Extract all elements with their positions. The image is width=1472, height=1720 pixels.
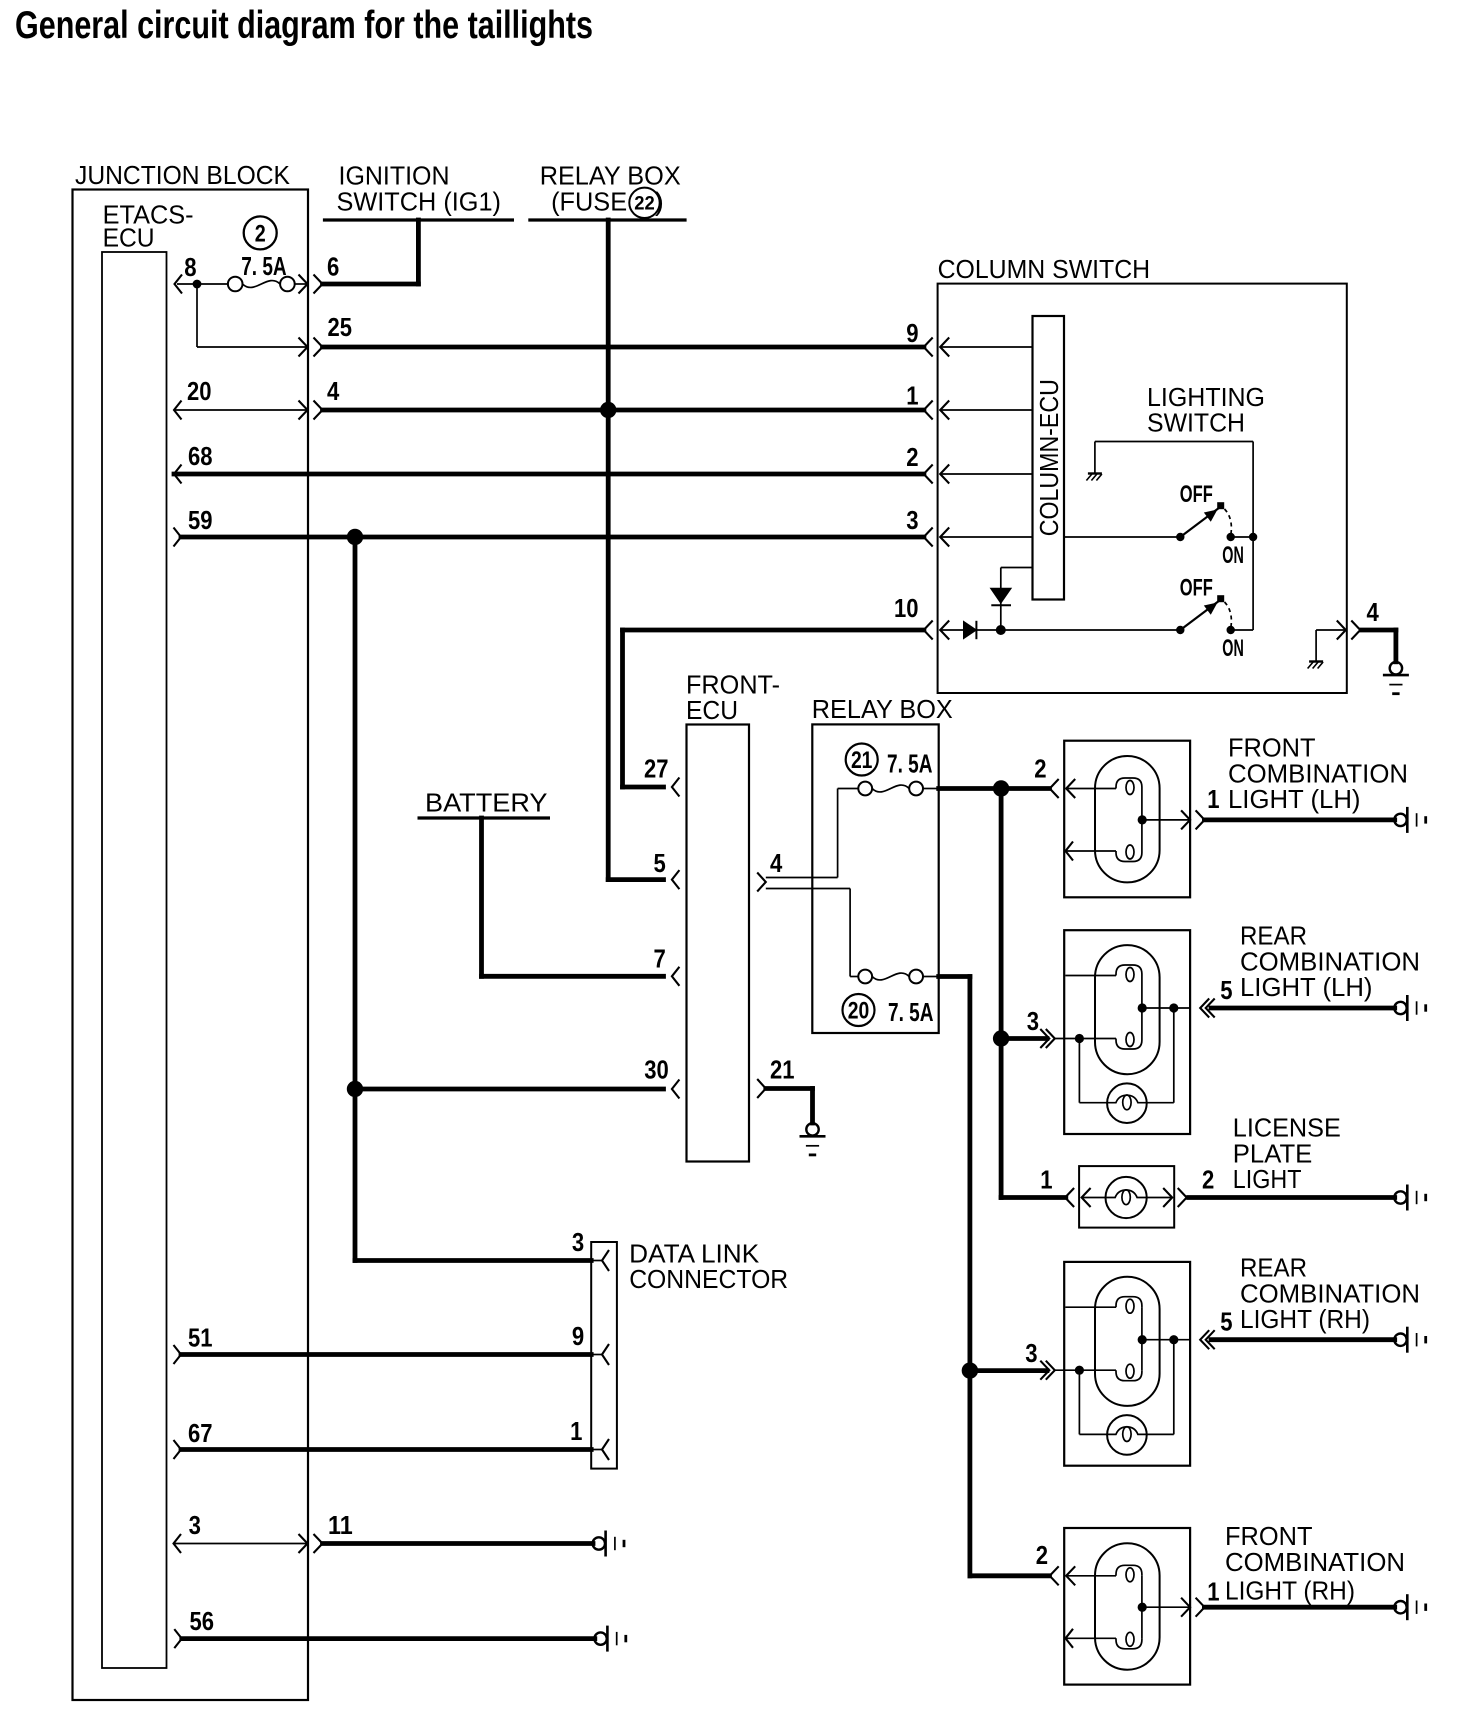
chassis ground at switch output: [1309, 660, 1323, 662]
wire pin 20 to junction block edge: [174, 409, 306, 411]
pin 21 arrow at front-ecu right edge: [757, 1079, 766, 1098]
svg-text:1: 1: [906, 381, 918, 411]
svg-text:5: 5: [1220, 975, 1232, 1005]
svg-text:22: 22: [634, 193, 655, 214]
svg-text:2: 2: [1034, 754, 1046, 784]
front combination light RH pin 1 connector: [1394, 1601, 1406, 1613]
front combination light RH box: [1064, 1528, 1190, 1685]
front combination light RH bulb outline: [1095, 1543, 1160, 1669]
rear combination light RH node tail bulb branch: [1169, 1335, 1178, 1344]
rear combination light RH node pin 5: [1138, 1335, 1147, 1344]
node upper switch contact: [1249, 533, 1257, 541]
rear combination light LH node pin 5: [1138, 1003, 1147, 1012]
svg-text:2: 2: [255, 221, 266, 248]
node at pin 8 wire: [193, 280, 202, 289]
svg-text:7. 5A: 7. 5A: [241, 251, 287, 281]
relay box (fuse 22) bus bar: [528, 218, 686, 221]
pin 11 connector: [593, 1537, 605, 1549]
svg-text:6: 6: [327, 252, 339, 282]
earth ground at column switch pin 4: [1390, 662, 1402, 674]
upper switch ON contact: [1227, 533, 1235, 541]
rear combination light LH box: [1064, 930, 1190, 1134]
pin 7 arrow at front-ecu: [672, 967, 680, 986]
svg-text:3: 3: [1027, 1006, 1039, 1036]
front combination light LH box: [1064, 741, 1190, 898]
svg-text:51: 51: [188, 1323, 213, 1353]
data link connector box: [591, 1242, 617, 1469]
wire fuse 20 output: [939, 974, 970, 979]
svg-text:30: 30: [644, 1055, 669, 1085]
ignition switch bus bar: [323, 218, 514, 221]
wire pin 21 to ground: [766, 1086, 813, 1091]
svg-text:ON: ON: [1222, 542, 1244, 569]
svg-text:21: 21: [770, 1055, 795, 1085]
front combination light RH pin 1 arrows: [1181, 1598, 1190, 1617]
lighting switch bus: [1252, 442, 1254, 631]
rear combination light LH pin 3 arrows: [1040, 1029, 1049, 1048]
front combination light LH bulb outline: [1095, 756, 1160, 882]
wire pin 10 from front-ecu pin 27: [623, 628, 924, 633]
svg-text:2: 2: [1036, 1540, 1048, 1570]
svg-text:CONNECTOR: CONNECTOR: [629, 1264, 788, 1294]
pin 68 arrow at etacs edge: [174, 465, 182, 484]
wire pin 3 to junction block edge: [174, 1543, 307, 1545]
fuse 2 7.5A between pins 8 and 6: [175, 275, 183, 294]
svg-text:11: 11: [328, 1510, 353, 1540]
rear combination light LH bulb outline: [1095, 945, 1160, 1074]
wire pin 4 to ground: [1362, 628, 1396, 633]
wire column-ecu to upper switch: [1064, 536, 1180, 538]
svg-text:OFF: OFF: [1180, 574, 1213, 601]
wire pin 59 branch down to pin 30 and data link: [353, 537, 358, 1261]
svg-text:4: 4: [770, 848, 783, 878]
license plate light connector: [1394, 1191, 1406, 1203]
svg-text:COMBINATION: COMBINATION: [1225, 1547, 1405, 1577]
svg-text:1: 1: [1040, 1165, 1052, 1195]
svg-text:COLUMN-ECU: COLUMN-ECU: [1034, 379, 1064, 536]
upper lighting switch arm: [1180, 508, 1218, 537]
svg-text:21: 21: [851, 747, 873, 774]
rear combination light LH top filament: [1065, 975, 1116, 977]
license plate light bulb: [1082, 1197, 1105, 1199]
pin 3 arrow at etacs edge: [174, 1534, 182, 1553]
rear combination light RH tail bulb left wire: [1078, 1370, 1080, 1434]
rear combination light RH pin 5 arrows: [1200, 1330, 1209, 1349]
license plate light box: [1079, 1166, 1174, 1228]
svg-text:General circuit diagram for th: General circuit diagram for the tailligh…: [15, 4, 593, 47]
rear combination light RH bottom filament: [1079, 1369, 1116, 1371]
rear combination light RH top filament: [1065, 1306, 1116, 1308]
pin 67 arrow at etacs edge: [174, 1440, 182, 1459]
pin 6 arrows at junction block edge: [299, 275, 308, 294]
svg-text:3: 3: [572, 1227, 584, 1257]
pin 2 arrows at license plate light: [1163, 1188, 1172, 1207]
diode D2 to column-ecu: [1000, 568, 1002, 631]
svg-text:2: 2: [906, 442, 918, 472]
node taillight bus 1: [993, 780, 1009, 796]
pin 56 arrow at etacs edge: [174, 1629, 182, 1648]
fuse 21 7.5A: [858, 782, 872, 796]
rear combination light RH pin 5 wire: [1142, 1339, 1190, 1341]
wire 25 to column switch pin 9: [323, 345, 924, 350]
front combination light RH top filament: [1066, 1575, 1116, 1577]
svg-text:RELAY BOX: RELAY BOX: [812, 694, 953, 724]
rear combination light LH node tail bulb branch: [1169, 1003, 1178, 1012]
license plate light output wire: [1189, 1195, 1395, 1200]
svg-text:LIGHT: LIGHT: [1233, 1164, 1302, 1194]
node pin 30 branch: [347, 1081, 363, 1097]
wire bus2 to rear light RH pin 3: [970, 1368, 1047, 1373]
rear combination light LH pin 5 output wire: [1211, 1006, 1395, 1011]
taillight bus 1 wire: [999, 789, 1004, 1198]
wire fuse 21 output to front combination light LH: [939, 786, 1050, 791]
pin 2 arrows at front light RH: [1050, 1566, 1059, 1585]
rear combination light LH node pin 3: [1075, 1034, 1084, 1043]
fuse 2 circle label: [244, 216, 277, 249]
svg-text:9: 9: [906, 318, 918, 348]
wire bus to rear light LH pin 3: [1001, 1036, 1047, 1041]
svg-text:5: 5: [654, 848, 666, 878]
svg-text:7. 5A: 7. 5A: [888, 997, 934, 1027]
svg-text:BATTERY: BATTERY: [425, 788, 548, 818]
wire 59 to column switch pin 3: [181, 535, 924, 540]
svg-text:67: 67: [188, 1418, 213, 1448]
lower switch dashed travel arc: [1225, 602, 1232, 627]
front combination light LH pin 1 arrows: [1181, 810, 1190, 829]
wire lighting switch common to ground: [1095, 441, 1253, 443]
wire bus to license plate light: [1001, 1195, 1066, 1200]
rear combination light RH node pin 3: [1075, 1366, 1084, 1375]
column switch box: [938, 284, 1347, 693]
wire 51 to data link pin 9: [181, 1352, 591, 1357]
svg-text:LIGHT (RH): LIGHT (RH): [1225, 1576, 1355, 1606]
rear combination light RH pin 3 entry wire: [1055, 1369, 1080, 1371]
pin 3 arrow inside data link connector: [591, 1260, 602, 1262]
svg-text:ON: ON: [1222, 635, 1244, 662]
wire ignition switch drop: [416, 220, 421, 284]
front combination light RH pin 1 wire: [1142, 1606, 1190, 1608]
svg-text:27: 27: [644, 754, 669, 784]
pin 56 output wire: [182, 1636, 595, 1641]
rear combination light LH pin 5 wire: [1142, 1007, 1190, 1009]
rear combination light LH tail bulb right wire: [1173, 1008, 1175, 1103]
svg-text:20: 20: [187, 376, 212, 406]
pin 4 arrow at front-ecu right edge: [757, 873, 766, 892]
pin 1 arrows at license plate light: [1065, 1188, 1074, 1207]
pin 30 arrow at front-ecu: [672, 1080, 680, 1099]
pin 3 arrows at column switch edge: [924, 528, 933, 547]
svg-text:ECU: ECU: [103, 222, 155, 252]
front combination light LH top filament: [1066, 788, 1116, 790]
pin 11 output wire: [323, 1541, 594, 1546]
wire 67 to data link pin 1: [181, 1447, 591, 1452]
svg-text:56: 56: [190, 1606, 215, 1636]
pin 51 arrow at etacs edge: [174, 1345, 182, 1364]
svg-text:20: 20: [848, 998, 870, 1025]
pin 59 arrow at etacs edge: [174, 528, 182, 547]
rear combination light RH box: [1064, 1262, 1190, 1466]
rear combination light RH bulb outline: [1095, 1277, 1160, 1406]
pin 2 arrows at column switch edge: [924, 465, 933, 484]
chassis ground in column switch: [1088, 472, 1102, 474]
svg-text:1: 1: [1207, 784, 1219, 814]
wire pin 6 to ignition switch: [323, 282, 419, 287]
rear combination light RH tail bulb right wire: [1173, 1340, 1175, 1435]
svg-text:(FUSE: (FUSE: [551, 186, 627, 216]
pin 4 arrows at column switch right edge: [1337, 621, 1346, 640]
junction block box: [73, 190, 309, 1701]
lower lighting switch arm: [1180, 601, 1218, 630]
svg-text:9: 9: [572, 1321, 584, 1351]
rear combination light LH pin 5 arrows: [1200, 999, 1209, 1018]
rear combination light LH tail bulb: [1107, 1083, 1147, 1123]
svg-text:1: 1: [570, 1416, 582, 1446]
svg-text:25: 25: [328, 312, 353, 342]
svg-text:3: 3: [1025, 1338, 1037, 1368]
rear combination light LH bottom filament: [1079, 1038, 1116, 1040]
svg-text:ECU: ECU: [686, 695, 738, 725]
svg-text:4: 4: [1367, 597, 1380, 627]
node rear LH feed: [993, 1030, 1009, 1046]
svg-text:SWITCH (IG1): SWITCH (IG1): [337, 186, 502, 216]
wire pin 9 into column-ecu: [940, 346, 1032, 348]
node pin 59 branch: [347, 529, 363, 545]
rear combination light RH pin 5 output wire: [1211, 1337, 1395, 1342]
fuse 20 circle label: [843, 994, 875, 1026]
front combination light LH pin 1 wire: [1142, 819, 1190, 821]
rear combination light LH pin 3 entry wire: [1055, 1038, 1080, 1040]
lower lighting switch pivot: [1176, 626, 1184, 634]
rear combination light LH pin 5 connector: [1394, 1002, 1406, 1014]
fuse 22 circle label: [629, 188, 659, 218]
svg-text:4: 4: [327, 376, 340, 406]
node fuse22 bus and pin 4 wire: [600, 402, 616, 418]
wire front-ecu pin 4 to fuse 21: [766, 877, 838, 879]
svg-text:3: 3: [906, 505, 918, 535]
wire bus2 to front light RH pin 2: [970, 1573, 1050, 1578]
svg-text:8: 8: [184, 252, 196, 282]
wire pin 2 into column-ecu: [940, 473, 1032, 475]
front combination light RH pin 1 output wire: [1204, 1605, 1394, 1610]
rear combination light RH pin 5 connector: [1394, 1334, 1406, 1346]
front combination light LH pin 1 output wire: [1204, 818, 1394, 823]
pin 20 arrow at etacs edge: [174, 401, 182, 420]
front combination light RH node pin 1: [1138, 1603, 1147, 1612]
fuse 21 circle label: [846, 744, 878, 776]
pin 1 arrows at column switch edge: [924, 401, 933, 420]
front combination light RH filament common wire: [1141, 1576, 1143, 1639]
upper switch dashed travel arc: [1225, 509, 1232, 534]
relay box: [812, 724, 938, 1033]
wire 68 to column switch pin 2: [174, 472, 924, 477]
svg-text:JUNCTION BLOCK: JUNCTION BLOCK: [75, 160, 291, 190]
wire battery to front-ecu pin 7: [479, 818, 484, 976]
wire to pin 30: [355, 1087, 664, 1092]
front combination light LH node pin 1: [1138, 815, 1147, 824]
pin 9 arrow inside data link connector: [591, 1354, 602, 1356]
wire to data link connector pin 3: [355, 1258, 591, 1263]
pin 9 arrows at column switch edge: [924, 338, 933, 357]
front-ecu box: [687, 725, 750, 1162]
pin 2 arrows at front light LH: [1050, 779, 1059, 798]
wire pin 3 into column-ecu: [940, 536, 1032, 538]
column-ecu box: [1033, 316, 1065, 600]
svg-text:2: 2: [1202, 1165, 1214, 1195]
ETACS-ECU box: [102, 252, 167, 1668]
svg-text:59: 59: [188, 505, 213, 535]
node diode junction: [996, 625, 1006, 635]
front combination light LH filament common wire: [1141, 789, 1143, 852]
upper lighting switch pivot: [1176, 533, 1184, 541]
pin 10 arrows at column switch edge: [924, 621, 933, 640]
svg-text:OFF: OFF: [1180, 481, 1213, 508]
front combination light LH bottom filament: [1066, 842, 1074, 861]
pin 4 arrows at junction block edge: [299, 401, 308, 420]
svg-text:LIGHT (LH): LIGHT (LH): [1240, 972, 1373, 1002]
wire switch output to pin 4: [1316, 629, 1345, 631]
taillight bus 2 wire: [968, 977, 973, 1576]
pin 11 arrows at junction block edge: [299, 1534, 308, 1553]
earth ground at front-ecu pin 21: [806, 1123, 818, 1135]
rear combination light RH pin 3 arrows: [1040, 1361, 1049, 1380]
svg-text:3: 3: [189, 1510, 201, 1540]
pin 56 connector: [594, 1632, 606, 1644]
wire front-ecu pin 4 to fuse 20: [766, 888, 850, 890]
pin 5 arrow at front-ecu: [608, 877, 663, 882]
lower switch ON contact: [1227, 626, 1235, 634]
front combination light LH pin 1 connector: [1394, 814, 1406, 826]
svg-text:5: 5: [1220, 1307, 1232, 1337]
pin 1 arrow inside data link connector: [591, 1449, 602, 1451]
rear combination light RH tail bulb: [1107, 1415, 1147, 1455]
front combination light RH bottom filament: [1066, 1629, 1074, 1648]
svg-text:LIGHT (LH): LIGHT (LH): [1228, 784, 1361, 814]
svg-text:SWITCH: SWITCH: [1147, 407, 1245, 437]
wire pin 1 into column-ecu: [940, 409, 1032, 411]
wire 4 to column switch pin 1: [323, 408, 924, 413]
pin 27 arrow at front-ecu: [672, 778, 680, 797]
fuse 20 7.5A: [858, 970, 872, 984]
svg-text:68: 68: [188, 441, 213, 471]
svg-text:COLUMN SWITCH: COLUMN SWITCH: [938, 254, 1151, 284]
battery bus bar: [418, 816, 551, 819]
diode D1 on pin 10 wire: [940, 629, 963, 631]
svg-text:10: 10: [894, 593, 919, 623]
rear combination light LH filament common wire: [1141, 976, 1143, 1039]
svg-text:7. 5A: 7. 5A: [887, 749, 933, 779]
rear combination light RH filament common wire: [1141, 1307, 1143, 1370]
fuse 22 bus wire down to front-ecu pin 5: [606, 220, 611, 880]
svg-text:LIGHT (RH): LIGHT (RH): [1240, 1304, 1370, 1334]
rear combination light LH tail bulb left wire: [1078, 1039, 1080, 1103]
wire pin 8 node down to pin 25: [196, 284, 198, 347]
svg-text:1: 1: [1207, 1577, 1219, 1607]
svg-text:7: 7: [654, 943, 666, 973]
pin 25 arrows at junction block edge: [299, 338, 308, 357]
node rear RH feed: [962, 1362, 978, 1378]
